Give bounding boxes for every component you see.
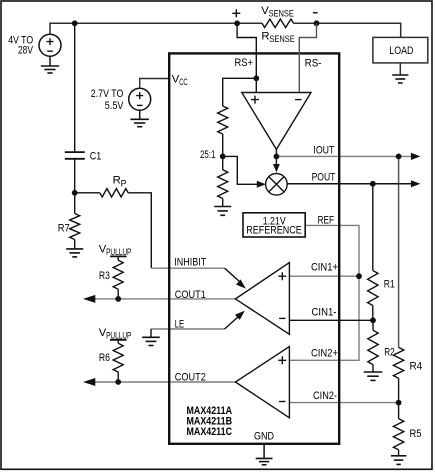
resistor R5 bbox=[398, 403, 400, 419]
junction: op-amp output / IOUT bbox=[274, 154, 280, 160]
svg-text:5.5V: 5.5V bbox=[105, 100, 124, 112]
ground under R2 bbox=[364, 371, 383, 373]
multiplier (X circle) bbox=[266, 174, 288, 196]
svg-text:RS-: RS- bbox=[305, 57, 322, 69]
svg-text:SENSE: SENSE bbox=[269, 34, 294, 44]
arrowhead COUT2 (left) bbox=[83, 378, 95, 386]
comparator2 + mark bbox=[278, 356, 286, 364]
arrowhead IOUT output bbox=[411, 153, 421, 160]
svg-text:R7: R7 bbox=[58, 223, 70, 235]
wire COUT2 (gray) bbox=[86, 381, 235, 383]
svg-text:C1: C1 bbox=[90, 151, 102, 163]
svg-text:GND: GND bbox=[254, 430, 274, 442]
svg-text:CIN1+: CIN1+ bbox=[311, 261, 338, 273]
pullup rail bar R3 bbox=[110, 255, 127, 257]
svg-text:R4: R4 bbox=[410, 360, 423, 372]
svg-text:REFERENCE: REFERENCE bbox=[246, 224, 302, 236]
svg-text:RS+: RS+ bbox=[235, 57, 254, 69]
junction: IOUT / R4 branch bbox=[396, 154, 402, 160]
ground under VCC source bbox=[130, 118, 149, 120]
junction: RSENSE + terminal bbox=[234, 20, 240, 26]
svg-text:R3: R3 bbox=[99, 270, 110, 282]
svg-text:25:1: 25:1 bbox=[200, 149, 216, 161]
ground: divider bottom bbox=[214, 206, 231, 208]
comparator U3 (CIN2) bbox=[235, 347, 289, 418]
ground under R7 bbox=[66, 248, 83, 250]
svg-text:R5: R5 bbox=[410, 428, 422, 440]
svg-text:R: R bbox=[113, 175, 121, 187]
wire: top rail from RSENSE to LOAD bbox=[294, 23, 401, 37]
wire: to multiplier top bbox=[275, 156, 277, 164]
wire: R1 to CIN1- node bbox=[372, 306, 374, 321]
wire: 25:1 tap to multiplier input bbox=[223, 156, 259, 184]
wire: VCC source to ground bbox=[139, 110, 141, 119]
op-amp U1 (current sense amp) bbox=[242, 93, 311, 150]
svg-text:CIN1-: CIN1- bbox=[312, 306, 337, 318]
junction: REF / CIN1+ bbox=[356, 273, 362, 279]
svg-text:CIN2-: CIN2- bbox=[313, 390, 337, 402]
comparator1 + mark bbox=[278, 272, 286, 280]
arrowhead POUT output bbox=[411, 180, 421, 187]
junction: R1 / R2 / CIN1- bbox=[370, 317, 376, 323]
wire: RS+ node to divider bbox=[223, 78, 257, 106]
resistor R1 bbox=[368, 271, 378, 306]
wire CIN1- to R1/R2 node bbox=[289, 319, 373, 321]
ground under 4V-28V source bbox=[41, 65, 59, 67]
resistor R2 bbox=[372, 320, 374, 330]
junction: COUT1 / R3 bbox=[115, 296, 121, 302]
comparator2 - mark bbox=[279, 401, 285, 403]
1.21V reference box bbox=[243, 213, 305, 237]
wire: node to RP bbox=[75, 192, 100, 194]
svg-text:R2: R2 bbox=[384, 346, 395, 358]
svg-text:COUT2: COUT2 bbox=[175, 372, 206, 384]
voltage source 2.7V TO 5.5V bbox=[129, 88, 151, 110]
arrowhead into multiplier (right) bbox=[257, 181, 266, 188]
ground under LOAD bbox=[392, 74, 408, 76]
svg-text:R: R bbox=[261, 30, 269, 42]
wire: R4 to CIN2- node bbox=[398, 378, 400, 402]
voltage source 4V TO 28V bbox=[39, 34, 61, 56]
wire: LOAD to ground bbox=[399, 63, 401, 75]
wire: source to ground bbox=[49, 56, 51, 65]
wire LE (gray) bbox=[151, 328, 225, 330]
resistor: divider lower (25:1) bbox=[218, 170, 228, 199]
wire: divider middle bbox=[222, 134, 224, 156]
svg-text:28V: 28V bbox=[18, 44, 34, 56]
wire: tap to lower divider resistor bbox=[222, 156, 224, 169]
junction: COUT2 / R6 bbox=[115, 379, 121, 385]
arrow INHIBIT to comparator bbox=[225, 268, 240, 281]
wire: RP to INHIBIT line bbox=[128, 193, 151, 268]
op-amp + input mark bbox=[251, 96, 259, 104]
svg-text:INHIBIT: INHIBIT bbox=[174, 256, 206, 268]
junction: R4 / R5 / CIN2- bbox=[396, 400, 402, 406]
wire REF to CIN2+ (gray) bbox=[289, 225, 359, 360]
wire: C1 to RP node bbox=[74, 159, 76, 193]
resistor R7 bbox=[74, 193, 76, 214]
label + (sense positive) bbox=[232, 9, 240, 17]
comparator U2 (CIN1) bbox=[235, 263, 289, 335]
label - (sense negative) bbox=[313, 12, 318, 14]
svg-text:R1: R1 bbox=[384, 279, 395, 291]
svg-text:SENSE: SENSE bbox=[269, 9, 294, 19]
resistor R6 bbox=[117, 340, 119, 344]
resistor RSENSE (VSENSE zigzag) bbox=[262, 19, 294, 27]
arrowhead COUT1 (left) bbox=[83, 295, 95, 303]
junction: POUT / R1 branch bbox=[370, 181, 376, 187]
svg-text:LOAD: LOAD bbox=[389, 45, 413, 57]
wire POUT bbox=[287, 183, 413, 185]
junction: 25:1 tap bbox=[220, 154, 226, 160]
wire COUT1 (gray) bbox=[86, 298, 235, 300]
svg-text:CIN2+: CIN2+ bbox=[311, 347, 338, 359]
resistor R4 bbox=[393, 347, 403, 378]
junction: top rail / left branch bbox=[72, 20, 78, 26]
svg-text:LE: LE bbox=[175, 319, 184, 331]
arrow LE to comparator bbox=[225, 316, 239, 329]
ground under R5 bbox=[391, 455, 407, 457]
wire CIN1+ (gray) bbox=[289, 275, 359, 277]
junction: RS+ / gain divider bbox=[253, 75, 259, 81]
capacitor C1 bbox=[65, 151, 85, 153]
wire CIN2- (gray) bbox=[289, 402, 398, 404]
ground on LE line bbox=[150, 329, 152, 337]
svg-text:COUT1: COUT1 bbox=[175, 289, 206, 301]
wire: op-amp output bbox=[275, 149, 277, 156]
svg-text:IOUT: IOUT bbox=[313, 145, 334, 157]
resistor: divider upper (25:1) bbox=[218, 106, 228, 134]
resistor R3 bbox=[117, 256, 119, 260]
svg-text:POUT: POUT bbox=[312, 172, 336, 184]
svg-text:P: P bbox=[121, 178, 127, 188]
arrowhead into multiplier (down) bbox=[273, 164, 280, 172]
svg-text:REF: REF bbox=[318, 215, 335, 227]
wire: POUT node down to R1 bbox=[372, 184, 374, 271]
junction: RP / R7 node bbox=[72, 190, 78, 196]
load box bbox=[373, 37, 428, 63]
IC package MAX4211 outline bbox=[169, 53, 339, 443]
wire IOUT node down to R4 bbox=[398, 156, 400, 347]
resistor RP bbox=[100, 189, 128, 197]
wire INHIBIT (gray) bbox=[151, 267, 224, 269]
comparator1 - mark bbox=[279, 317, 285, 319]
svg-text:CC: CC bbox=[179, 77, 188, 87]
wire: RSENSE+ to RS+ pin bbox=[237, 23, 256, 92]
wire: top rail from V+ source to VSENSE bbox=[50, 23, 262, 34]
ground at GND pin bbox=[263, 445, 265, 458]
op-amp - input mark bbox=[295, 99, 301, 101]
wire: left branch down to C1 bbox=[74, 23, 76, 151]
wire: VCC source to VCC pin bbox=[140, 79, 169, 89]
svg-text:R6: R6 bbox=[99, 352, 110, 364]
svg-text:MAX4211C: MAX4211C bbox=[187, 426, 233, 438]
junction: RSENSE - terminal bbox=[314, 20, 320, 26]
wire: RSENSE- to RS- pin bbox=[299, 23, 316, 92]
wire IOUT (gray) bbox=[276, 155, 413, 157]
multiplier X mark bbox=[269, 177, 284, 192]
pullup rail bar R6 bbox=[110, 339, 127, 341]
svg-text:2.7V TO: 2.7V TO bbox=[91, 88, 124, 100]
